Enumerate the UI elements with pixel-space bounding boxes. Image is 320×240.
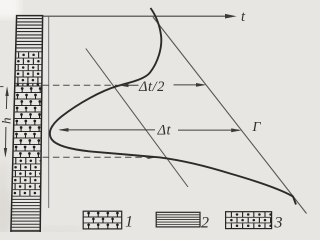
- annotation delta-t: right arrow: [178, 129, 239, 131]
- svg-text:1: 1: [125, 213, 133, 230]
- dashed boundary line, bottom of bed: [43, 156, 150, 158]
- geothermal gradient line r: [153, 17, 307, 214]
- arrowhead at curve on lower boundary: [148, 156, 157, 159]
- temperature anomaly curve: [50, 8, 296, 205]
- annotation delta-t/2: left arrow: [120, 84, 139, 86]
- svg-text:h: h: [0, 118, 14, 125]
- small dash left of bracket: [0, 86, 4, 88]
- column section: upper dotted-brick bed: [9, 51, 45, 53]
- dashed boundary line, top of bed: [43, 84, 117, 86]
- annotation delta-t/2: right arrow: [174, 84, 204, 86]
- svg-text:Δt/2: Δt/2: [138, 79, 165, 95]
- svg-text:2: 2: [201, 215, 209, 232]
- legend box 1 (dot-and-tick pattern): [83, 211, 122, 229]
- svg-text:Г: Г: [252, 120, 262, 135]
- lithological column outline: [11, 16, 43, 232]
- depth axis (vertical): [48, 16, 50, 208]
- t axis (horizontal, arrow right): [43, 15, 227, 17]
- column section: bottom shale (horizontal lines): [9, 199, 45, 230]
- shifted geotherm line (left diagonal): [86, 49, 188, 188]
- annotation delta-t: left arrow: [60, 129, 155, 131]
- svg-text:Δt: Δt: [157, 123, 172, 139]
- column section: top shale (horizontal lines): [9, 19, 45, 48]
- column section: reservoir bed h (dot-and-tick pattern): [9, 93, 45, 158]
- bed thickness h: dimension line with arrows: [5, 89, 8, 110]
- legend box 2 (horizontal lines): [156, 212, 200, 227]
- svg-text:3: 3: [274, 214, 283, 231]
- column section: lower dotted-brick bed: [9, 164, 45, 196]
- legend box 3 (dotted bricks): [226, 212, 272, 229]
